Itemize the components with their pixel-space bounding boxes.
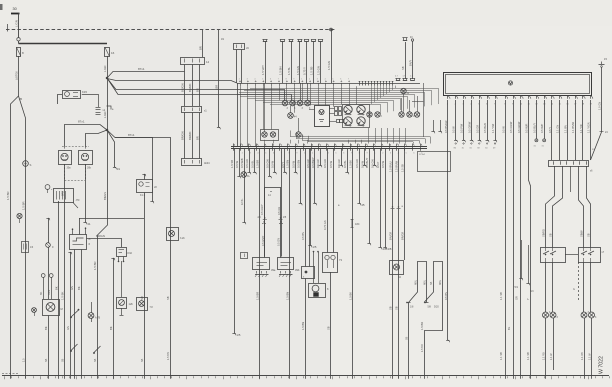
bus bar 30 xyxy=(11,13,20,15)
svg-text:1.5 BK: 1.5 BK xyxy=(349,292,353,300)
wire lamp11 stub xyxy=(401,98,403,112)
combination unit pin row xyxy=(447,96,593,106)
wire tap a xyxy=(43,278,45,300)
wire motor down xyxy=(48,316,50,376)
terminal dots row xyxy=(454,143,497,150)
connector block mid lower xyxy=(182,159,211,166)
svg-text:4.7: 4.7 xyxy=(395,76,398,78)
svg-text:0.5 GN: 0.5 GN xyxy=(245,159,249,168)
warning lamp 2 xyxy=(290,100,296,110)
wire pin11 xyxy=(526,100,531,376)
drawing number W7022 xyxy=(599,356,605,374)
svg-text:1.5 SB: 1.5 SB xyxy=(310,66,314,75)
cluster left edge xyxy=(237,83,239,146)
wire main feed xyxy=(19,43,108,45)
connector block 3pin xyxy=(181,58,210,65)
label run48 xyxy=(44,326,48,330)
wire bus drop xyxy=(18,13,20,44)
svg-text:0.5 BL/Y: 0.5 BL/Y xyxy=(365,157,369,168)
svg-text:0.5 W: 0.5 W xyxy=(501,126,505,133)
wire pin10 xyxy=(515,100,521,376)
cluster connector strip xyxy=(231,147,427,149)
terminal horn2 xyxy=(83,222,90,226)
ring terminal xyxy=(45,185,53,193)
junction ring xyxy=(17,38,20,41)
warning lamp 8 xyxy=(296,132,304,138)
cluster gauge drops xyxy=(369,128,406,144)
relay C3 xyxy=(137,180,158,193)
svg-text:4: 4 xyxy=(257,153,258,155)
label 340 xyxy=(338,204,340,207)
wire sender down xyxy=(48,247,50,299)
wire harness 320 xyxy=(316,149,322,168)
wire pin8 xyxy=(499,100,505,376)
svg-text:BR: BR xyxy=(196,136,200,140)
wire K32 stub xyxy=(0,0,1,1)
lamp E1 xyxy=(88,302,100,322)
svg-text:0.5 W: 0.5 W xyxy=(291,161,295,168)
wire harness 254.5 xyxy=(251,149,257,175)
inline connector a xyxy=(258,217,267,246)
warning lamp 10 xyxy=(375,112,383,118)
svg-text:BR/RD: BR/RD xyxy=(188,84,192,92)
label L GN xyxy=(15,20,19,27)
wire sender top xyxy=(46,218,49,243)
connector small KL xyxy=(241,253,248,259)
wire J1 down xyxy=(107,78,109,130)
svg-text:5/3: 5/3 xyxy=(530,290,534,293)
svg-text:1.1 SB: 1.1 SB xyxy=(499,292,503,300)
svg-text:1.5 BR: 1.5 BR xyxy=(6,191,10,200)
warning lamp 5 xyxy=(288,113,298,119)
svg-text:0.5 GN: 0.5 GN xyxy=(266,159,270,168)
wire J1 bus b xyxy=(107,78,292,101)
loop terminals 2 xyxy=(434,306,439,309)
tap rings xyxy=(41,274,53,278)
svg-text:1/5: 1/5 xyxy=(312,245,317,249)
svg-text:39b: 39b xyxy=(295,268,300,272)
svg-text:30: 30 xyxy=(13,7,17,11)
wire harness 284.8 xyxy=(281,149,287,175)
svg-text:L GN: L GN xyxy=(15,20,19,27)
wire run 113 xyxy=(109,258,115,376)
svg-text:87x1: 87x1 xyxy=(138,67,145,71)
label relay wires xyxy=(70,286,81,290)
gauge volt xyxy=(344,117,352,128)
svg-text:BR: BR xyxy=(196,88,200,92)
wire harness 380 xyxy=(376,149,387,252)
label fuse1 wire xyxy=(15,71,19,80)
wire pinR14 xyxy=(551,100,553,160)
wire bulbs down xyxy=(330,272,332,376)
wire small block down xyxy=(58,201,60,376)
junction dot 331 xyxy=(330,28,333,31)
svg-text:43C: 43C xyxy=(355,223,360,226)
svg-text:SB/W: SB/W xyxy=(580,230,584,237)
wire lighter b xyxy=(313,251,314,283)
wire lamp feed d xyxy=(587,166,591,247)
svg-text:1.5 BR: 1.5 BR xyxy=(256,292,260,300)
wire 2pin a xyxy=(236,50,238,84)
svg-text:W 7022: W 7022 xyxy=(599,356,605,374)
relay K2 pin stubs xyxy=(72,228,86,235)
svg-text:0.5 BL/R: 0.5 BL/R xyxy=(483,123,487,133)
svg-text:12b: 12b xyxy=(129,302,134,306)
loop terminals 1 xyxy=(406,302,431,309)
wire J2 stub 152 xyxy=(115,138,154,204)
terminal T405 xyxy=(401,37,413,79)
wire fuse2 down xyxy=(107,56,109,78)
cluster feed terminals xyxy=(262,39,323,41)
svg-text:5: 5 xyxy=(335,153,336,155)
svg-text:L GN: L GN xyxy=(103,66,107,72)
terminal 120 xyxy=(0,0,1,1)
warning lamp 4 xyxy=(305,100,311,110)
svg-text:5: 5 xyxy=(262,79,263,81)
cluster bus mesh xyxy=(237,89,438,105)
staircase drops xyxy=(381,88,439,114)
stub hook b xyxy=(438,120,441,133)
svg-text:0.5 BN: 0.5 BN xyxy=(296,160,300,168)
stabilizer pins xyxy=(309,109,336,122)
svg-text:1.1 GN: 1.1 GN xyxy=(556,125,560,133)
wire harness 300.3 xyxy=(296,149,302,206)
svg-text:Ab04: Ab04 xyxy=(204,162,210,165)
wire fusebox b xyxy=(395,149,399,376)
wire harness 352.5 xyxy=(349,149,353,376)
label wire196 xyxy=(188,84,192,92)
svg-text:1.5 BN: 1.5 BN xyxy=(286,292,290,300)
cluster top pin row xyxy=(239,79,350,87)
wire bulbs b xyxy=(329,149,334,253)
wire side 602 xyxy=(591,67,602,160)
wire 2pin b xyxy=(241,50,243,84)
label horn1 wire xyxy=(61,191,65,300)
svg-text:BK/GN: BK/GN xyxy=(103,192,107,200)
wire J2 down-left run xyxy=(98,130,108,376)
svg-text:SB: SB xyxy=(389,306,393,310)
switch S3 xyxy=(93,346,100,354)
wire clock loop xyxy=(265,187,281,258)
cluster terminals right xyxy=(395,76,415,81)
wire relay bottom b xyxy=(81,250,83,376)
svg-text:0.5 W: 0.5 W xyxy=(329,161,333,168)
connector 1-3 xyxy=(22,242,34,253)
svg-text:BR: BR xyxy=(199,46,203,50)
wire J1 bus top xyxy=(107,79,237,84)
svg-text:SB: SB xyxy=(327,326,331,330)
svg-text:1.5 BN/W: 1.5 BN/W xyxy=(395,160,399,172)
svg-text:S: S xyxy=(30,163,32,167)
svg-text:8: 8 xyxy=(286,79,287,81)
strip pin ticks xyxy=(233,144,422,151)
voltage stabilizer U1 xyxy=(315,106,330,127)
bracket 43C xyxy=(351,219,360,228)
lamp LR3 xyxy=(581,312,590,318)
svg-text:0.5 W/P: 0.5 W/P xyxy=(540,124,544,133)
wire relay bottom a xyxy=(74,250,76,376)
bulb unit 73 xyxy=(323,253,343,273)
svg-text:0.5 P: 0.5 P xyxy=(376,162,380,168)
wire pin1 xyxy=(444,100,450,342)
svg-text:1.5 W/Y: 1.5 W/Y xyxy=(261,65,265,75)
label wire203 xyxy=(196,46,203,92)
svg-text:87x1: 87x1 xyxy=(78,120,85,124)
svg-text:5/1: 5/1 xyxy=(515,286,519,289)
wire clock a xyxy=(260,149,266,257)
svg-text:1.5 BN: 1.5 BN xyxy=(167,352,170,360)
label 87x1 b xyxy=(78,120,85,124)
connector ring C1 xyxy=(23,161,32,167)
wire lamp4 feed xyxy=(307,83,309,100)
svg-text:1.5 BK: 1.5 BK xyxy=(61,291,65,300)
svg-text:6: 6 xyxy=(270,79,271,81)
svg-text:0.75 Y: 0.75 Y xyxy=(303,67,307,75)
svg-text:4/8: 4/8 xyxy=(387,247,392,251)
svg-text:BK: BK xyxy=(77,286,81,290)
svg-text:SB: SB xyxy=(587,233,591,237)
wire relay feed drop xyxy=(79,218,81,235)
svg-text:1.5 BN: 1.5 BN xyxy=(279,66,283,75)
svg-text:1.1 Y/W: 1.1 Y/W xyxy=(491,123,495,133)
svg-text:1.5 BR: 1.5 BR xyxy=(93,261,97,270)
svg-text:SB: SB xyxy=(401,66,405,70)
svg-text:2: 2 xyxy=(239,79,240,81)
wire lamp8 feed xyxy=(298,118,300,132)
svg-text:1.5 GN: 1.5 GN xyxy=(296,66,300,75)
wire harness 269.6 xyxy=(266,149,272,179)
label 87x1 a xyxy=(138,67,145,71)
warning lamp 11 xyxy=(399,112,404,117)
wire harness 239 xyxy=(235,149,241,179)
svg-text:30a: 30a xyxy=(67,167,72,170)
svg-text:1.5 BR: 1.5 BR xyxy=(420,322,424,330)
svg-text:0.5 GR: 0.5 GR xyxy=(475,125,479,133)
lamp box E3 xyxy=(167,228,186,241)
wire lamp12 stub xyxy=(409,100,411,112)
svg-text:SB: SB xyxy=(549,233,553,237)
lamp KL xyxy=(241,172,251,178)
terminal T412 xyxy=(409,39,414,79)
gauge oil xyxy=(357,117,365,128)
label bulbs wire xyxy=(327,326,331,330)
svg-text:1.5: 1.5 xyxy=(23,358,26,362)
ribbon loop 1 xyxy=(409,262,427,303)
svg-text:SB: SB xyxy=(45,358,48,362)
svg-text:1.5 GN: 1.5 GN xyxy=(327,61,331,70)
svg-text:J70: J70 xyxy=(76,199,81,202)
gauge temp xyxy=(357,105,365,116)
wire 404 upper xyxy=(401,149,405,260)
tick 24 xyxy=(600,131,609,134)
svg-text:1.5 BK: 1.5 BK xyxy=(349,160,353,168)
sender G1 xyxy=(46,243,54,249)
svg-text:G: G xyxy=(573,288,575,291)
wire lamp b2 xyxy=(550,318,554,370)
wire harness 364.5 xyxy=(361,149,367,168)
mech link dashed xyxy=(573,262,579,300)
svg-text:4: 4 xyxy=(254,79,255,81)
svg-text:0.5 W: 0.5 W xyxy=(235,161,239,168)
corner mark top-left xyxy=(0,4,3,10)
connector box 39b xyxy=(278,258,300,278)
svg-text:9: 9 xyxy=(293,79,294,81)
wire pinR16 xyxy=(567,100,569,160)
wire harness 359 xyxy=(355,149,365,208)
label wire222 xyxy=(215,38,225,90)
svg-text:12 S4: 12 S4 xyxy=(419,154,425,156)
lamp E2 xyxy=(137,298,154,311)
wire lamp3 feed xyxy=(300,83,302,100)
svg-text:0.5 GN: 0.5 GN xyxy=(323,159,327,168)
svg-text:M: M xyxy=(61,307,63,311)
svg-text:0.5 W: 0.5 W xyxy=(452,126,456,133)
label left wire xyxy=(22,201,26,210)
label far-left wire xyxy=(6,191,10,200)
warning lamp 9 xyxy=(367,112,372,117)
svg-text:K32: K32 xyxy=(128,252,133,255)
wire harness 259.5 xyxy=(256,149,260,376)
wire harness 374.5 xyxy=(371,149,377,168)
ruler tick marks xyxy=(5,376,610,379)
label run58 xyxy=(55,286,59,290)
bracket mark xyxy=(107,106,115,111)
svg-text:30b: 30b xyxy=(87,167,92,170)
warning lamp 12 xyxy=(407,112,415,118)
gauge fuel xyxy=(344,105,352,116)
gauge frame xyxy=(343,105,370,128)
combination unit inner xyxy=(446,75,590,94)
wire pinR18 xyxy=(582,100,584,160)
label tap wires xyxy=(40,290,51,295)
relay K32 xyxy=(117,248,133,257)
svg-text:39a: 39a xyxy=(271,268,276,272)
svg-text:45: 45 xyxy=(361,203,365,207)
label long wires xyxy=(256,292,425,330)
wire lamp c xyxy=(583,262,585,312)
wire lighter a xyxy=(306,149,317,250)
svg-text:0.5 GN: 0.5 GN xyxy=(277,207,281,215)
svg-text:MBL: MBL xyxy=(424,279,427,285)
svg-text:SB: SB xyxy=(140,296,144,300)
cluster feed wires xyxy=(261,42,321,84)
svg-text:2: 2 xyxy=(382,153,383,155)
label 87x1 c xyxy=(128,133,135,137)
wire J2 to horn2 xyxy=(86,130,108,147)
svg-text:SB: SB xyxy=(406,336,409,340)
wire dash drop 222 xyxy=(217,30,220,129)
wire lighter c xyxy=(317,251,318,283)
wire K15 left xyxy=(58,95,63,105)
fuse F1 xyxy=(16,47,24,57)
wire lamp feed b xyxy=(549,166,563,247)
switch link xyxy=(565,254,578,256)
svg-text:0.5 W: 0.5 W xyxy=(271,161,275,168)
svg-text:LGN: LGN xyxy=(48,290,51,295)
cluster top edge xyxy=(237,83,420,85)
label BR-GN xyxy=(96,234,105,238)
wire J2 to horn1 xyxy=(65,125,108,147)
wire lamp6 feed xyxy=(264,83,266,132)
bottom wire tails xyxy=(11,376,592,379)
svg-text:BR/GR: BR/GR xyxy=(401,232,405,240)
wire lamp d xyxy=(590,262,592,312)
svg-text:0.5 GR/W: 0.5 GR/W xyxy=(467,121,471,133)
wire harness 234 xyxy=(230,149,241,338)
svg-text:BR2: BR2 xyxy=(62,191,65,196)
wire dash drop 203 xyxy=(200,30,203,106)
svg-text:BR/GN: BR/GN xyxy=(181,131,185,140)
lamp small xyxy=(32,308,37,316)
wire mid a xyxy=(181,113,185,159)
wire tap b xyxy=(51,278,53,300)
dashed bulkhead line xyxy=(6,24,336,32)
svg-text:3.2b: 3.2b xyxy=(180,237,185,240)
wire K15 right xyxy=(82,94,98,96)
svg-text:0.5 W: 0.5 W xyxy=(361,161,365,168)
combination unit outer xyxy=(444,73,592,96)
wire harness 347 xyxy=(343,149,349,175)
cluster routing mesh xyxy=(290,131,431,144)
connector box C3 xyxy=(302,267,315,279)
wire relay feed xyxy=(79,218,144,220)
wire lamp b xyxy=(552,262,554,312)
svg-text:3: 3 xyxy=(247,79,248,81)
svg-text:BR/GN: BR/GN xyxy=(96,234,105,238)
warning lamp 3 xyxy=(297,100,303,110)
svg-text:L GN: L GN xyxy=(103,112,107,118)
svg-text:0.5 GN: 0.5 GN xyxy=(278,238,281,246)
wire box3 a xyxy=(301,149,305,267)
wire J1 bus a xyxy=(107,78,285,101)
svg-text:SB: SB xyxy=(94,358,97,362)
connector strip right xyxy=(549,161,594,173)
lamp LR1 xyxy=(543,312,552,318)
wire harness 385 xyxy=(381,149,392,252)
strip pin numbers xyxy=(234,153,422,155)
svg-text:BN/Y: BN/Y xyxy=(409,60,413,66)
svg-text:LBR: LBR xyxy=(215,85,219,90)
svg-text:1.5 BN/U: 1.5 BN/U xyxy=(389,161,393,172)
label J1 wire xyxy=(103,112,107,118)
staircase verticals xyxy=(372,86,396,105)
svg-text:0.5 GN/W: 0.5 GN/W xyxy=(509,121,513,133)
wire left run xyxy=(19,96,26,376)
wire pin7 xyxy=(493,100,496,142)
wire pin6 xyxy=(486,100,489,142)
svg-text:2: 2 xyxy=(242,153,243,155)
wire dash 331 xyxy=(327,29,332,83)
instrument 12b xyxy=(117,298,134,309)
svg-text:1.1 RB: 1.1 RB xyxy=(543,352,546,360)
wire lamp KL xyxy=(240,149,246,225)
wire pin9 xyxy=(507,100,514,376)
svg-text:6: 6 xyxy=(413,153,414,155)
svg-text:0.5 GN: 0.5 GN xyxy=(355,159,359,168)
svg-text:BK: BK xyxy=(44,326,48,330)
svg-text:3: 3 xyxy=(390,153,391,155)
wire lamp feed c xyxy=(579,166,584,247)
svg-text:BR/GN: BR/GN xyxy=(181,83,185,92)
wire 3pin b xyxy=(192,65,194,107)
svg-text:SB: SB xyxy=(395,306,399,310)
bottom labels left xyxy=(23,358,145,362)
wire lamp a xyxy=(545,262,547,312)
wire to far-left run xyxy=(11,96,19,376)
wire horn1 down xyxy=(64,164,66,376)
svg-text:1N: 1N xyxy=(221,38,224,41)
cluster internal wires xyxy=(241,86,357,146)
